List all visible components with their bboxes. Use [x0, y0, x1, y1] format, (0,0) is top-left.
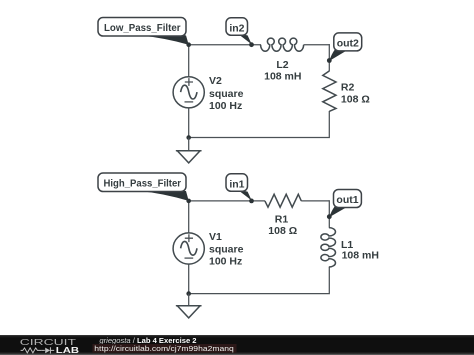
svg-text:R2: R2	[341, 82, 355, 94]
voltage source V2	[173, 77, 204, 108]
svg-text:108 Ω: 108 Ω	[268, 225, 297, 237]
wire: V2 bottom terminal to bottom rail junction	[188, 108, 190, 138]
label V2 value	[209, 75, 244, 112]
svg-text:square: square	[209, 88, 244, 100]
node out2	[327, 33, 362, 63]
junction: V1 minus / bottom rail / ground	[186, 291, 191, 296]
net label High_Pass_Filter	[98, 173, 191, 203]
svg-text:100 Hz: 100 Hz	[209, 256, 242, 268]
svg-text:out1: out1	[336, 194, 358, 206]
wire: corner down through out1 node to L1 top	[328, 200, 330, 227]
junction: V2 minus / bottom rail / ground	[186, 135, 191, 140]
svg-text:square: square	[209, 244, 244, 256]
svg-text:100 Hz: 100 Hz	[209, 100, 242, 112]
wire: node A down to V2 top terminal	[188, 44, 190, 78]
resistor R1	[265, 194, 301, 207]
wire: top rail node A to L2 left terminal	[189, 44, 261, 46]
svg-text:V1: V1	[209, 231, 222, 243]
label L2 value	[264, 59, 301, 83]
svg-text:Low_Pass_Filter: Low_Pass_Filter	[104, 22, 181, 34]
wire: node B down to V1 top terminal	[188, 200, 190, 234]
net label Low_Pass_Filter	[98, 18, 191, 48]
svg-text:108 mH: 108 mH	[264, 71, 301, 83]
footer bar	[0, 335, 474, 355]
label V1 value	[209, 231, 244, 268]
label L1 value	[341, 239, 379, 262]
svg-text:LAB: LAB	[56, 345, 79, 355]
footer url	[93, 344, 237, 353]
wire: V1 bottom terminal to bottom rail junction	[188, 264, 190, 294]
node in1	[226, 174, 254, 204]
wire: top rail node B to R1 left terminal	[189, 200, 265, 202]
inductor L2	[261, 38, 304, 51]
CircuitLab logo	[20, 338, 79, 355]
svg-text:V2: V2	[209, 75, 222, 87]
svg-text:High_Pass_Filter: High_Pass_Filter	[104, 178, 182, 190]
inductor L1	[321, 228, 336, 267]
wire: L2 right terminal to top-right corner	[304, 44, 330, 46]
svg-text:108 mH: 108 mH	[342, 250, 379, 262]
ground (low-pass)	[176, 138, 202, 163]
svg-text:108 Ω: 108 Ω	[341, 93, 370, 105]
svg-text:in1: in1	[229, 178, 244, 190]
svg-text:out2: out2	[337, 37, 359, 49]
ground (high-pass)	[176, 294, 202, 318]
svg-text:L2: L2	[276, 59, 288, 71]
label R1 value	[268, 213, 297, 237]
wire: R1 right terminal to top-right corner	[301, 200, 329, 202]
wire: L1 bottom to corner and across bottom rail	[189, 267, 330, 294]
wire: top-right corner down through out2 node to R2	[328, 44, 330, 71]
svg-text:in2: in2	[229, 22, 244, 34]
svg-text:http://circuitlab.com/cj7m99ha: http://circuitlab.com/cj7m99ha2manq	[94, 344, 234, 353]
wire: R2 bottom to corner and across bottom rail to junction	[189, 111, 330, 138]
voltage source V1	[173, 233, 204, 264]
node in2	[226, 18, 254, 47]
svg-text:R1: R1	[275, 213, 289, 225]
node out1	[327, 190, 362, 220]
resistor R2	[323, 71, 336, 111]
label R2 value	[341, 82, 370, 106]
